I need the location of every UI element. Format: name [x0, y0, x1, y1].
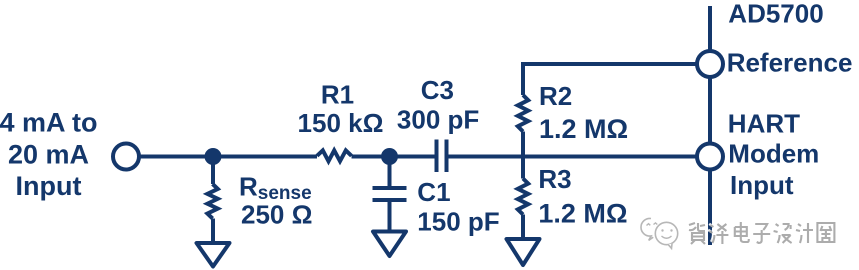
svg-text:1.2 MΩ: 1.2 MΩ — [538, 199, 627, 229]
ground — [197, 243, 230, 267]
svg-text:150 kΩ: 150 kΩ — [298, 108, 384, 138]
svg-text:250 Ω: 250 Ω — [241, 200, 312, 230]
label C1 value — [417, 177, 499, 237]
capacitor C3 — [437, 140, 447, 173]
label Rsense value — [239, 172, 312, 230]
svg-text:C3: C3 — [421, 75, 454, 105]
resistor R1 — [317, 150, 352, 161]
wire — [140, 155, 317, 159]
watermark logo bubbles — [641, 218, 678, 248]
wire — [449, 155, 698, 159]
svg-text:R2: R2 — [539, 81, 572, 111]
wire AD5700 vertical net — [708, 6, 712, 245]
svg-text:4 mA to: 4 mA to — [0, 108, 98, 138]
svg-text:20 mA: 20 mA — [8, 140, 89, 170]
label R3 value — [538, 164, 627, 229]
label R1 value — [298, 80, 384, 139]
node junction at Rsense tap — [205, 148, 222, 165]
node HART Modem Input terminal — [697, 144, 723, 170]
wire — [388, 200, 392, 232]
svg-text:Modem: Modem — [728, 139, 819, 169]
node 4-20mA input terminal — [113, 144, 139, 170]
svg-text:R3: R3 — [538, 164, 571, 194]
svg-text:R1: R1 — [321, 80, 354, 110]
svg-text:Reference: Reference — [727, 48, 853, 78]
svg-text:HART: HART — [728, 109, 800, 139]
svg-text:1.2 MΩ: 1.2 MΩ — [539, 114, 628, 144]
watermark text (CJK approximated) — [688, 222, 705, 244]
label HART Modem Input pin — [728, 109, 820, 201]
svg-text:C1: C1 — [417, 177, 450, 207]
node junction at C1 tap — [381, 148, 398, 165]
node Reference terminal — [697, 51, 723, 77]
label R2 value — [539, 81, 628, 144]
resistor R2 — [518, 95, 528, 132]
resistor Rsense — [207, 184, 217, 219]
wire — [352, 155, 435, 159]
wire — [388, 157, 392, 189]
wire — [521, 157, 525, 179]
capacitor C1 — [373, 188, 407, 200]
ground — [507, 239, 540, 265]
svg-text:Input: Input — [730, 170, 794, 200]
wire — [521, 215, 525, 240]
svg-text:150 pF: 150 pF — [417, 207, 499, 237]
ground — [373, 232, 406, 257]
svg-text:AD5700: AD5700 — [728, 0, 823, 29]
wire — [521, 132, 525, 157]
wire — [211, 219, 215, 244]
svg-text:Input: Input — [16, 171, 82, 201]
label 4 mA to 20 mA Input — [0, 108, 98, 202]
resistor R3 — [518, 179, 528, 215]
wire — [211, 157, 215, 185]
wire — [523, 64, 697, 95]
svg-text:300 pF: 300 pF — [397, 105, 479, 135]
label C3 value — [397, 75, 479, 135]
